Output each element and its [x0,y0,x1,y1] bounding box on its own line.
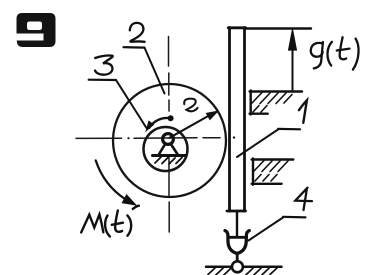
support triangle [159,144,179,156]
damper piston plate [230,236,245,239]
ball roller [232,261,243,272]
pivot pin [163,134,174,145]
leader from 4 [249,218,284,241]
lower guide block [252,159,294,185]
support base [153,154,186,157]
label 1 underline [278,128,300,131]
leader from 3 [116,80,147,128]
label 3 [95,56,113,75]
damper cup 4 [225,231,249,254]
ground line [206,266,282,269]
label 4 [295,188,312,210]
radius arrow r [170,115,211,138]
label 2 [130,23,145,42]
label 2 underline [124,46,145,49]
moment arrow M(t) [96,160,125,199]
hub circle 3 (small circle) [144,127,188,171]
top reference line [246,27,311,29]
label 4 underline [283,216,306,219]
wire: vertical dash-dot centerline [168,37,171,233]
label 3 underline [89,79,116,82]
upper guide block [250,91,302,115]
label 1 [299,100,307,123]
cup lower stem [236,253,239,261]
leader from 1 [237,130,278,158]
label M(t) [81,206,139,237]
lower guide hatching [254,161,288,182]
support hatching [155,157,182,164]
upper guide hatching [252,93,292,113]
leader from 2 [145,48,165,94]
rotation arc arrow at pivot [149,118,170,128]
damper stem [236,211,238,236]
wire: horizontal dash-dot centerline [76,136,235,139]
ground hatching [208,268,277,275]
figure number 9 [17,13,56,47]
label q(t) [311,37,359,69]
displacement arrow q(t) [292,45,294,91]
node: center dot on vertical axis [168,115,174,121]
disk 2 (big circle) [113,84,226,197]
follower rod 1 [227,28,246,212]
label z (radius label) [184,99,197,112]
